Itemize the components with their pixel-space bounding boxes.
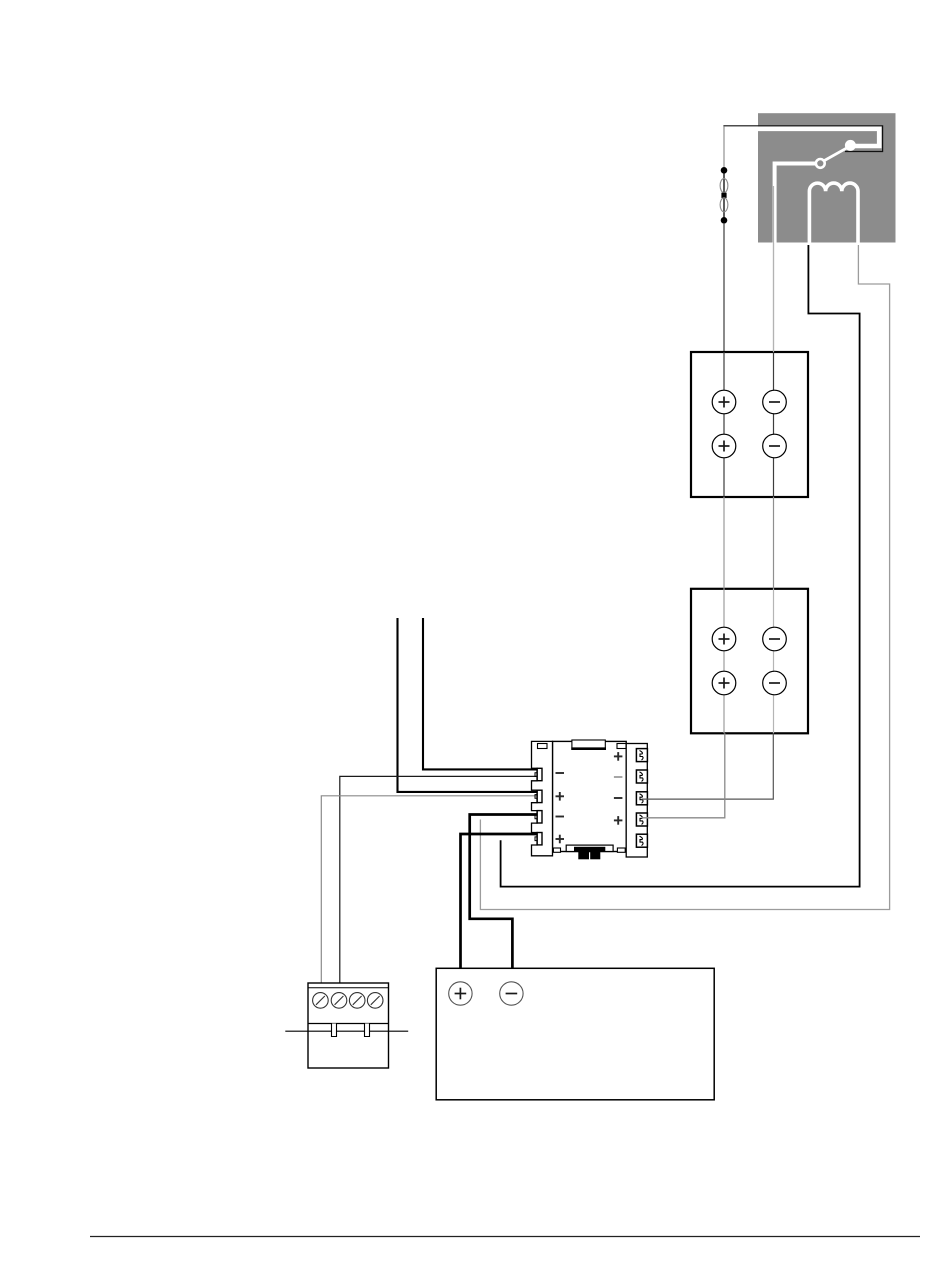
- box2 terminal - (bottom): [763, 671, 787, 695]
- wire: common leg (white inside relay box): [775, 164, 817, 245]
- module U1 left terminal 4: [537, 833, 542, 845]
- battery + terminal: [449, 982, 472, 1005]
- wire: - column to module right terminal 3: [642, 733, 774, 799]
- terminal block TB1 mounting rail (extended): [285, 1030, 408, 1032]
- module U1 bottom connector shroud: [566, 845, 613, 851]
- module U1 right terminal strip: [626, 744, 647, 858]
- module U1 label right plus 1: [614, 755, 623, 757]
- module U1 right terminal 3: [636, 792, 647, 805]
- module U1 label left plus 1: [556, 795, 565, 797]
- box1 terminal - (bottom): [763, 434, 787, 458]
- module U1 connector prong right: [590, 852, 600, 860]
- wire: module left terminal 2 to terminal block screw 1: [321, 796, 540, 993]
- terminal block TB1 slot 2: [365, 1024, 370, 1037]
- fuse F1 upper cartridge: [720, 179, 728, 193]
- box1 terminal + (top): [712, 390, 736, 414]
- wire: +24V riser top run into relay (black outline): [723, 126, 882, 152]
- box2 terminal + (bottom): [712, 671, 736, 695]
- wire: + column to module right terminal 4: [642, 733, 725, 818]
- relay coil K1 (white): [809, 183, 858, 248]
- relay enclosure (gray box): [758, 113, 896, 242]
- battery - terminal: [500, 982, 523, 1005]
- relay contact: fixed contact (filled circle): [845, 140, 856, 151]
- module U1 bottom-right detail rect: [617, 848, 625, 852]
- module U1 label left plus 2: [556, 838, 565, 840]
- module U1 top-right detail rect: [617, 744, 626, 749]
- box2 terminal + (top): [712, 627, 736, 651]
- wire: - column through box2: [773, 589, 775, 734]
- fuse F1 lower cartridge: [720, 198, 728, 212]
- wire: common leg thin gray continuation: [773, 186, 775, 352]
- module U1 body: [553, 741, 627, 851]
- wire: riser above fuse: [723, 126, 725, 167]
- box1 terminal - (top): [763, 390, 787, 414]
- fuse F1 top junction dot: [721, 167, 728, 174]
- wire: +24V run (white core inside relay box): [758, 129, 879, 146]
- module U1 label right minus 2: [614, 797, 623, 799]
- module U1 bottom connector body (black): [574, 847, 605, 852]
- module U1 label left minus 2: [556, 816, 565, 818]
- module U1 label right plus 2: [614, 819, 623, 821]
- wire: riser pigtail 2 (to module left terminal 2): [398, 618, 541, 792]
- module U1 right terminal 1: [636, 749, 647, 762]
- wire: + column box1 to box2: [723, 497, 725, 589]
- module U1 left terminal 3: [537, 811, 542, 823]
- module U1 right terminal 5: [636, 834, 647, 847]
- wire: + column through box2: [723, 589, 725, 734]
- box2 terminal - (top): [763, 627, 787, 651]
- footer rule: [90, 1236, 920, 1238]
- module U1 connector prong left: [578, 852, 589, 860]
- module U1 bottom-left detail rect: [553, 848, 560, 852]
- wire: + column through box1: [723, 352, 725, 497]
- terminal block TB1 body: [308, 983, 389, 1068]
- wire: coil right leg gray return path: [480, 245, 889, 910]
- terminal block TB1 screw 3: [349, 993, 365, 1009]
- wire: - column above box1: [773, 243, 775, 352]
- terminal block TB1 top bar: [308, 987, 389, 989]
- module U1 left terminal strip outline: [532, 741, 553, 855]
- terminal block TB1 slot 1: [332, 1024, 337, 1037]
- module U1 right terminal 4: [636, 813, 647, 826]
- terminal block TB1 screw 1: [313, 993, 329, 1009]
- wire: riser pigtail 1 (to module left terminal 1): [423, 618, 540, 769]
- wire: coil left leg to module (black return path): [501, 245, 860, 887]
- annunciator box 1: [691, 352, 808, 497]
- fuse F1 bottom junction dot: [721, 217, 728, 224]
- terminal block TB1 mid rail upper: [308, 1023, 389, 1025]
- box1 terminal + (bottom): [712, 434, 736, 458]
- wire: module left terminal 4 to battery plus (thick): [461, 834, 541, 983]
- module U1 label right minus 1 (light): [614, 776, 623, 778]
- battery box: [436, 968, 714, 1100]
- module U1 top mounting tab: [572, 740, 605, 749]
- module U1 left terminal 1: [537, 768, 542, 780]
- terminal block TB1 screw 4: [367, 993, 383, 1009]
- terminal block TB1 screw 2: [331, 993, 347, 1009]
- module U1 top-left detail rect: [538, 744, 548, 749]
- wire: - column box1 to box2: [773, 497, 775, 589]
- annunciator box 2: [691, 589, 808, 734]
- module U1 left terminal 2: [537, 790, 542, 802]
- wire: - column through box1: [773, 352, 775, 497]
- relay contact: blade: [824, 147, 848, 160]
- wire: module left terminal 1 to terminal block screw 2: [340, 776, 540, 993]
- module U1 label left minus 1: [556, 772, 565, 774]
- wire: + riser fuse to box1: [723, 223, 725, 352]
- wire: module left terminal 3 to battery minus (thick): [470, 815, 540, 984]
- fuse F1 body wire: [723, 170, 725, 220]
- fuse F1 center element (black square): [721, 193, 726, 198]
- module U1 right terminal 2: [636, 770, 647, 783]
- relay contact: common (open circle): [816, 159, 825, 168]
